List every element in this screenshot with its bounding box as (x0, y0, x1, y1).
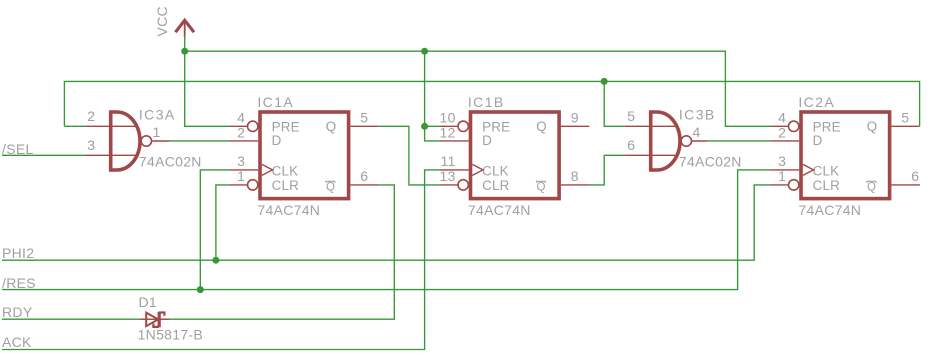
wire IC1B Qbar to IC3B pin6 (589, 155, 624, 185)
svg-text:1N5817-B: 1N5817-B (138, 326, 203, 342)
svg-text:10: 10 (440, 110, 456, 126)
pin 9 Q (561, 125, 590, 127)
wire net ACK to IC1B CLK (2, 170, 440, 350)
svg-text:ACK: ACK (2, 334, 32, 350)
svg-text:1: 1 (778, 168, 786, 184)
pin 12 D (440, 140, 469, 142)
svg-text:13: 13 (440, 168, 456, 184)
NOR gate IC3B 74AC02N (625, 106, 742, 171)
svg-text:D1: D1 (139, 294, 158, 310)
svg-text:9: 9 (571, 110, 579, 126)
svg-text:6: 6 (911, 168, 919, 184)
wire net RDY through D1 up to IC1A Qbar (2, 185, 394, 319)
svg-text:74AC74N: 74AC74N (468, 202, 531, 218)
pin 5 Q (350, 125, 379, 127)
svg-text:3: 3 (87, 137, 95, 153)
svg-text:4: 4 (778, 110, 786, 126)
pin 4 PRE (771, 125, 789, 127)
svg-text:74AC74N: 74AC74N (798, 202, 861, 218)
pin 5 Q (891, 125, 919, 127)
svg-text:6: 6 (360, 168, 368, 184)
pin 8 Qbar (561, 184, 590, 186)
svg-text:VCC: VCC (154, 6, 170, 36)
node junction VCC on line1 (181, 48, 188, 55)
node junction line1 x424 (421, 48, 428, 55)
pin 4 PRE (230, 125, 248, 127)
svg-text:5: 5 (901, 110, 909, 126)
svg-text:D: D (272, 133, 282, 148)
svg-text:12: 12 (440, 124, 456, 140)
node junction IC1B PRE branch (421, 123, 428, 130)
svg-text:CLR: CLR (482, 178, 510, 193)
pin 6 Qbar (891, 184, 920, 186)
wire IC3B output to IC2A D (708, 140, 771, 142)
flip-flop IC1A 74AC74N (230, 94, 379, 218)
diode D1 1N5817-B (138, 294, 203, 342)
wire IC1A Q to IC1B CLR (379, 126, 440, 185)
svg-text:RDY: RDY (2, 304, 33, 320)
wire line2 branch down to IC3B pin5 (604, 81, 624, 126)
svg-text:D: D (482, 133, 492, 148)
svg-text:Q: Q (326, 119, 337, 134)
svg-text:CLR: CLR (272, 178, 300, 193)
wire top bus line1 from VCC to IC2A PRE (185, 51, 771, 126)
svg-text:CLR: CLR (813, 178, 841, 193)
pin 1 CLR (230, 184, 248, 186)
svg-text:5: 5 (627, 108, 635, 124)
pin 3 CLK (771, 169, 800, 171)
svg-text:6: 6 (627, 137, 635, 153)
svg-text:Q: Q (326, 181, 335, 193)
pin 10 PRE (440, 125, 458, 127)
svg-text:CLK: CLK (813, 164, 840, 179)
svg-text:1: 1 (237, 168, 245, 184)
pin 2 D (230, 140, 259, 142)
svg-text:IC1B: IC1B (468, 94, 505, 110)
svg-text:Q: Q (867, 181, 876, 193)
node junction /RES (197, 286, 204, 293)
svg-text:Q: Q (867, 119, 878, 134)
svg-text:2: 2 (778, 124, 786, 140)
pin 3 CLK (230, 169, 259, 171)
wire IC1A CLK down to /RES (200, 170, 229, 290)
flip-flop IC2A 74AC74N (771, 94, 920, 218)
flip-flop IC1B 74AC74N (440, 94, 590, 218)
svg-text:5: 5 (360, 110, 368, 126)
pin 11 CLK (440, 169, 469, 171)
node junction PHI2 (212, 257, 219, 264)
svg-text:IC3B: IC3B (679, 106, 716, 122)
pin 13 CLR (440, 184, 458, 186)
svg-text:3: 3 (778, 153, 786, 169)
wire feedback bus line2 from IC3A pin2 to IC2A Q (64, 81, 919, 126)
svg-text:8: 8 (571, 168, 579, 184)
svg-text:CLK: CLK (272, 164, 299, 179)
svg-text:D: D (813, 133, 823, 148)
wire net PHI2 to IC2A CLR (2, 185, 771, 260)
svg-text:Q: Q (537, 181, 546, 193)
wire IC1A CLR down to PHI2 (216, 185, 230, 260)
svg-text:74AC02N: 74AC02N (679, 154, 742, 170)
wire net /SEL to IC3A pin3 (2, 154, 85, 156)
svg-text:IC2A: IC2A (798, 94, 835, 110)
svg-text:2: 2 (87, 108, 95, 124)
svg-text:Q: Q (536, 119, 547, 134)
svg-text:74AC02N: 74AC02N (139, 154, 202, 170)
wire net /RES to IC2A CLK (2, 170, 771, 290)
power symbol VCC (154, 6, 194, 37)
wire line1 branch down to IC1B PRE and D (425, 51, 440, 141)
wire IC3A output to IC1A D (169, 140, 229, 142)
svg-text:4: 4 (237, 110, 245, 126)
node junction line2 x604 (601, 78, 608, 85)
svg-text:74AC74N: 74AC74N (257, 202, 320, 218)
pin 2 D (771, 140, 800, 142)
wire VCC net vertical down to IC1A PRE (185, 35, 230, 126)
svg-text:IC3A: IC3A (139, 106, 176, 122)
svg-text:/SEL: /SEL (2, 141, 34, 157)
svg-text:4: 4 (693, 124, 701, 140)
svg-text:PHI2: PHI2 (2, 245, 34, 261)
svg-text:2: 2 (237, 124, 245, 140)
svg-text:3: 3 (237, 153, 245, 169)
svg-text:1: 1 (153, 124, 161, 140)
pin 1 CLR (771, 184, 789, 186)
svg-text:CLK: CLK (482, 164, 509, 179)
svg-text:IC1A: IC1A (257, 94, 294, 110)
svg-text:11: 11 (441, 153, 456, 169)
NOR gate IC3A 74AC02N (85, 106, 202, 171)
pin 6 Qbar (350, 184, 379, 186)
svg-text:/RES: /RES (2, 275, 36, 291)
